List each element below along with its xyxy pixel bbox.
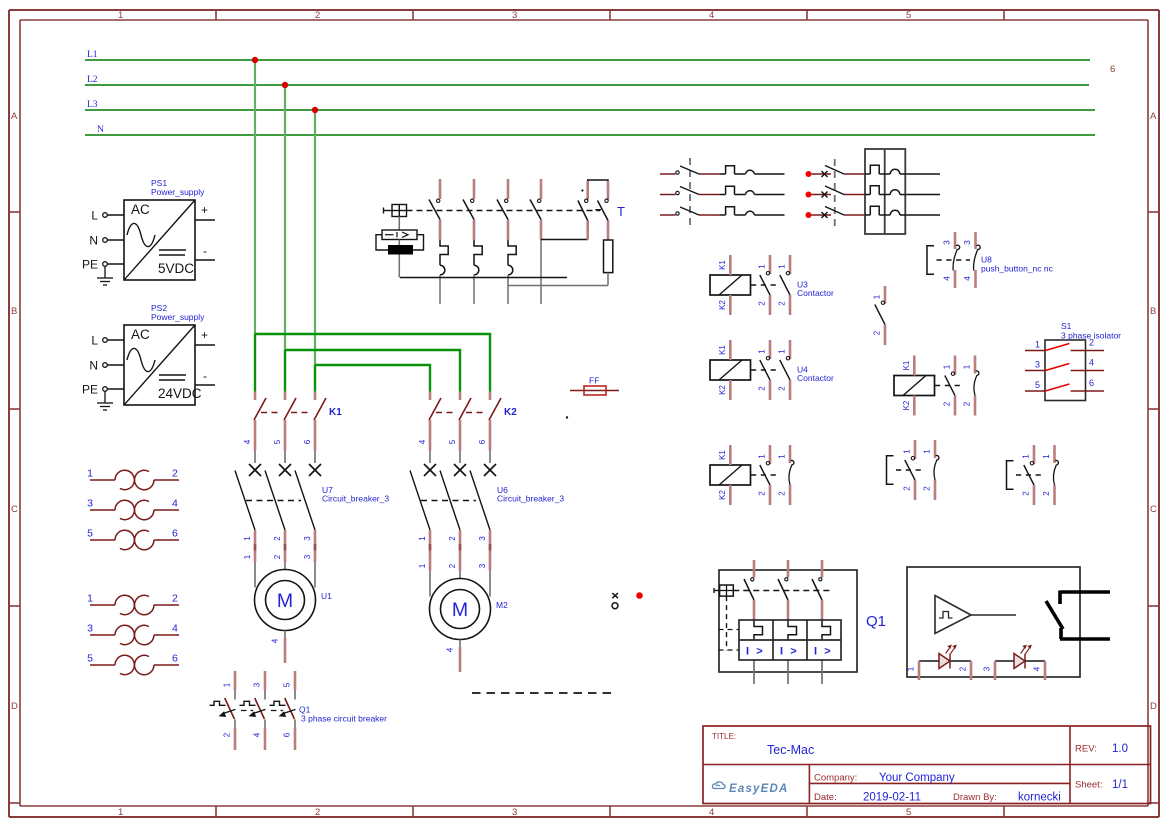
svg-text:2: 2 — [223, 732, 232, 737]
svg-text:REV:: REV: — [1075, 744, 1097, 755]
svg-text:4: 4 — [243, 439, 252, 444]
svg-text:1: 1 — [778, 264, 787, 269]
svg-text:3: 3 — [478, 563, 487, 568]
svg-text:1: 1 — [87, 468, 93, 480]
svg-text:1: 1 — [243, 554, 252, 559]
svg-text:2: 2 — [315, 10, 320, 21]
svg-text:2019-02-11: 2019-02-11 — [863, 792, 921, 804]
svg-text:2: 2 — [758, 491, 767, 496]
svg-text:3: 3 — [943, 240, 952, 245]
svg-text:Drawn By:: Drawn By: — [953, 792, 997, 803]
svg-text:Power_supply: Power_supply — [151, 312, 205, 322]
svg-text:FF: FF — [589, 376, 599, 386]
svg-text:PE: PE — [82, 258, 98, 272]
svg-text:2: 2 — [778, 301, 787, 306]
svg-text:3 phase circuit breaker: 3 phase circuit breaker — [301, 714, 387, 724]
svg-text:>: > — [824, 646, 830, 658]
svg-text:2: 2 — [778, 491, 787, 496]
svg-text:L: L — [91, 334, 98, 348]
svg-text:4: 4 — [963, 276, 972, 281]
svg-text:U1: U1 — [321, 591, 332, 601]
svg-text:5: 5 — [87, 653, 93, 665]
svg-text:3: 3 — [253, 682, 262, 687]
svg-text:M: M — [452, 599, 468, 621]
svg-text:1: 1 — [903, 449, 912, 454]
svg-text:K2: K2 — [902, 400, 911, 410]
svg-text:2: 2 — [1022, 491, 1031, 496]
svg-text:B: B — [1150, 306, 1156, 317]
svg-text:kornecki: kornecki — [1018, 792, 1061, 804]
svg-text:D: D — [1150, 701, 1157, 712]
svg-text:4: 4 — [709, 807, 714, 818]
svg-text:6: 6 — [172, 528, 178, 540]
svg-text:M: M — [277, 590, 293, 612]
svg-text:S1: S1 — [1061, 321, 1072, 331]
svg-text:B: B — [11, 306, 17, 317]
svg-text:1: 1 — [418, 563, 427, 568]
svg-text:4: 4 — [172, 498, 178, 510]
svg-text:1: 1 — [1022, 454, 1031, 459]
svg-text:2: 2 — [448, 563, 457, 568]
svg-text:Contactor: Contactor — [797, 288, 834, 298]
svg-text:K1: K1 — [902, 360, 911, 370]
svg-text:Q1: Q1 — [866, 613, 886, 630]
svg-text:Sheet:: Sheet: — [1075, 780, 1102, 791]
svg-text:I: I — [780, 646, 783, 658]
svg-text:5: 5 — [906, 10, 911, 21]
svg-text:4: 4 — [172, 623, 178, 635]
svg-text:2: 2 — [172, 593, 178, 605]
svg-text:AC: AC — [131, 327, 150, 342]
svg-text:-: - — [203, 244, 207, 258]
svg-text:N: N — [89, 359, 98, 373]
svg-text:K2: K2 — [718, 385, 727, 395]
svg-text:2: 2 — [1042, 491, 1051, 496]
svg-text:6: 6 — [1089, 378, 1094, 388]
svg-text:C: C — [1150, 504, 1157, 515]
svg-text:1: 1 — [418, 536, 427, 541]
svg-text:AC: AC — [131, 202, 150, 217]
svg-text:1: 1 — [758, 454, 767, 459]
svg-text:4: 4 — [1033, 666, 1042, 671]
svg-text:Circuit_breaker_3: Circuit_breaker_3 — [497, 494, 564, 504]
svg-text:L1: L1 — [87, 50, 98, 60]
svg-text:2: 2 — [903, 486, 912, 491]
svg-text:K1: K1 — [718, 450, 727, 460]
svg-text:1: 1 — [118, 10, 123, 21]
svg-text:4: 4 — [943, 276, 952, 281]
svg-text:Circuit_breaker_3: Circuit_breaker_3 — [322, 494, 389, 504]
svg-text:4: 4 — [271, 638, 280, 643]
svg-text:Your Company: Your Company — [879, 772, 955, 784]
svg-text:2: 2 — [963, 401, 972, 406]
svg-text:3: 3 — [963, 240, 972, 245]
svg-text:2: 2 — [778, 386, 787, 391]
svg-text:>: > — [790, 646, 796, 658]
svg-text:2: 2 — [873, 330, 882, 335]
svg-text:K2: K2 — [718, 300, 727, 310]
svg-text:PE: PE — [82, 383, 98, 397]
svg-text:1: 1 — [87, 593, 93, 605]
svg-text:4: 4 — [446, 647, 455, 652]
svg-text:1.0: 1.0 — [1112, 743, 1128, 755]
svg-text:5: 5 — [87, 528, 93, 540]
svg-text:K1: K1 — [718, 345, 727, 355]
svg-text:1: 1 — [118, 807, 123, 818]
svg-text:6: 6 — [283, 732, 292, 737]
svg-text:I: I — [814, 646, 817, 658]
svg-text:2: 2 — [758, 301, 767, 306]
svg-text:EasyEDA: EasyEDA — [729, 783, 789, 795]
svg-text:T: T — [617, 204, 625, 219]
svg-text:1: 1 — [963, 364, 972, 369]
svg-text:1: 1 — [758, 264, 767, 269]
svg-text:3 phase isolator: 3 phase isolator — [1061, 331, 1121, 341]
svg-text:3: 3 — [303, 536, 312, 541]
svg-text:3: 3 — [1035, 360, 1040, 370]
svg-text:1: 1 — [907, 666, 916, 671]
svg-text:Contactor: Contactor — [797, 373, 834, 383]
svg-text:1: 1 — [923, 449, 932, 454]
svg-text:2: 2 — [943, 401, 952, 406]
svg-text:3: 3 — [512, 807, 517, 818]
svg-text:1: 1 — [1042, 454, 1051, 459]
svg-text:3: 3 — [512, 10, 517, 21]
svg-text:-: - — [203, 369, 207, 383]
svg-text:K2: K2 — [718, 490, 727, 500]
svg-text:3: 3 — [983, 666, 992, 671]
svg-text:6: 6 — [172, 653, 178, 665]
svg-text:Company:: Company: — [814, 773, 857, 784]
svg-text:5: 5 — [906, 807, 911, 818]
svg-text:24VDC: 24VDC — [158, 386, 202, 401]
svg-text:2: 2 — [959, 666, 968, 671]
svg-text:3: 3 — [478, 536, 487, 541]
svg-text:5: 5 — [283, 682, 292, 687]
svg-text:6: 6 — [1110, 64, 1115, 75]
svg-text:K1: K1 — [329, 407, 342, 418]
svg-text:1: 1 — [758, 349, 767, 354]
svg-text:C: C — [11, 504, 18, 515]
svg-text:5: 5 — [273, 439, 282, 444]
svg-text:TITLE:: TITLE: — [712, 732, 736, 741]
svg-text:L2: L2 — [87, 75, 98, 85]
svg-text:6: 6 — [303, 439, 312, 444]
svg-text:4: 4 — [253, 732, 262, 737]
svg-text:A: A — [1150, 111, 1157, 122]
svg-text:1: 1 — [778, 349, 787, 354]
svg-text:+: + — [201, 203, 208, 217]
svg-text:M2: M2 — [496, 600, 508, 610]
svg-text:Date:: Date: — [814, 792, 837, 803]
svg-text:I: I — [746, 646, 749, 658]
svg-text:K1: K1 — [718, 260, 727, 270]
svg-text:L: L — [91, 209, 98, 223]
svg-text:4: 4 — [709, 10, 714, 21]
svg-text:1: 1 — [223, 682, 232, 687]
svg-text:1: 1 — [243, 536, 252, 541]
svg-text:Power_supply: Power_supply — [151, 187, 205, 197]
svg-text:4: 4 — [1089, 358, 1094, 368]
svg-text:1/1: 1/1 — [1112, 779, 1128, 791]
svg-text:K2: K2 — [504, 407, 517, 418]
svg-text:3: 3 — [87, 498, 93, 510]
svg-text:6: 6 — [478, 439, 487, 444]
svg-text:2: 2 — [273, 554, 282, 559]
svg-text:Tec-Mac: Tec-Mac — [767, 743, 814, 757]
svg-text:5: 5 — [448, 439, 457, 444]
svg-text:A: A — [11, 111, 18, 122]
svg-text:4: 4 — [418, 439, 427, 444]
svg-text:D: D — [11, 701, 18, 712]
svg-text:1: 1 — [1035, 340, 1040, 350]
svg-text:N: N — [89, 234, 98, 248]
svg-text:2: 2 — [172, 468, 178, 480]
svg-text:2: 2 — [758, 386, 767, 391]
svg-text:1: 1 — [943, 364, 952, 369]
svg-text:+: + — [201, 328, 208, 342]
svg-text:push_button_nc nc: push_button_nc nc — [981, 264, 1054, 274]
svg-text:3: 3 — [87, 623, 93, 635]
svg-text:2: 2 — [923, 486, 932, 491]
svg-text:2: 2 — [315, 807, 320, 818]
svg-text:1: 1 — [778, 454, 787, 459]
svg-text:1: 1 — [873, 294, 882, 299]
svg-text:3: 3 — [303, 554, 312, 559]
svg-text:N: N — [97, 125, 104, 135]
svg-text:>: > — [756, 646, 762, 658]
svg-text:5VDC: 5VDC — [158, 261, 194, 276]
svg-text:2: 2 — [273, 536, 282, 541]
svg-text:L3: L3 — [87, 100, 98, 110]
svg-text:2: 2 — [448, 536, 457, 541]
svg-text:5: 5 — [1035, 380, 1040, 390]
